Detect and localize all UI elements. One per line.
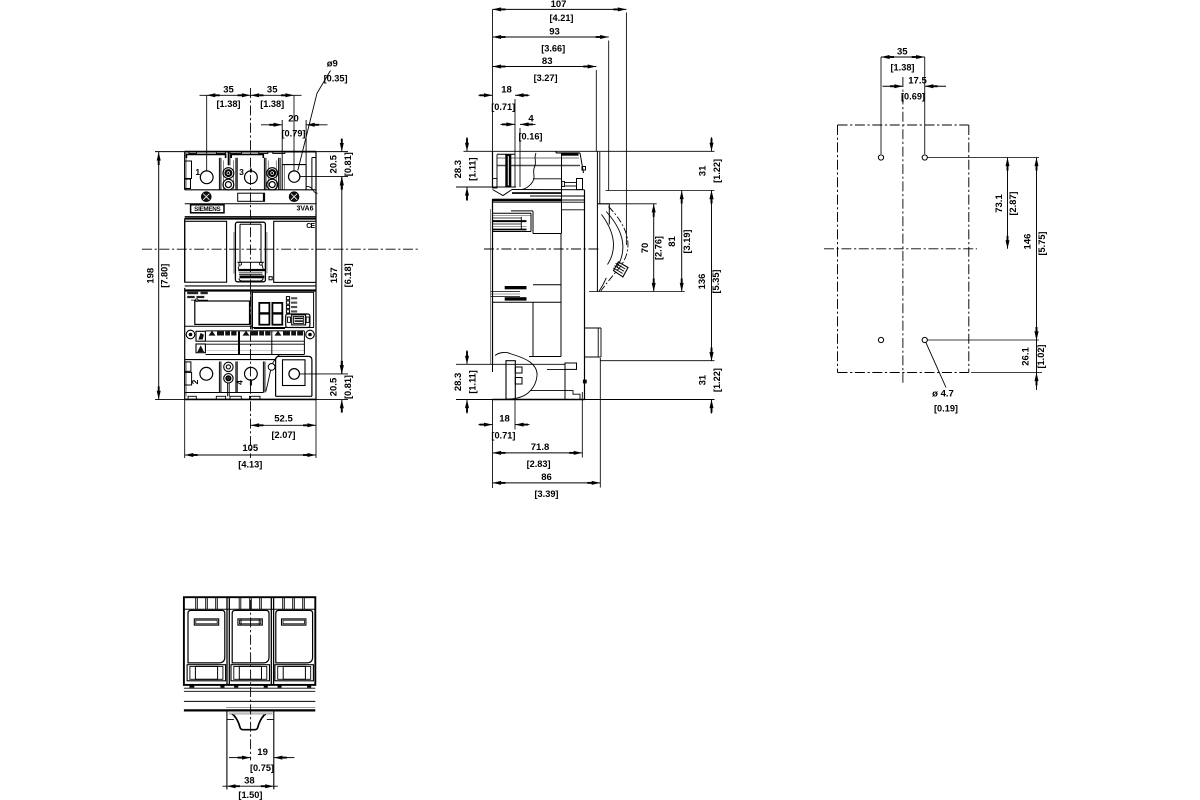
centerline: bottom view vertical (250, 600, 252, 760)
svg-text:35: 35 (897, 46, 908, 57)
dimension: 35 [1.38] hole pitch (881, 46, 925, 154)
side view: case outline (456, 151, 715, 399)
front view: divider block 1 with small screws (219, 158, 237, 190)
front view: small square right of toggle (269, 277, 272, 280)
svg-text:[1.22]: [1.22] (712, 159, 722, 183)
dimension: 31 [1.22] bottom right (711, 347, 713, 361)
front view: bottom right terminal block (276, 356, 348, 396)
svg-text:198: 198 (145, 268, 156, 284)
front view: mounting bar with two screws and label plate (185, 192, 316, 204)
front view: SIEMENS nameplate (191, 205, 224, 213)
side view: bottom front extension (492, 400, 494, 489)
svg-text:[1.11]: [1.11] (467, 157, 477, 181)
svg-text:4: 4 (528, 113, 534, 124)
dimension: 198 [7.80] overall height (145, 152, 169, 400)
side view: dark separation band (493, 199, 562, 202)
svg-text:18: 18 (499, 413, 510, 424)
front view: section divider line (185, 217, 316, 219)
side view: bottom terminal detail (456, 352, 587, 399)
dimension: 86 [3.39] (493, 358, 601, 499)
svg-text:[1.38]: [1.38] (216, 99, 240, 109)
svg-text:[1.38]: [1.38] (260, 99, 284, 109)
front view: terminal screw pole4 bottom (label 4) (234, 367, 257, 385)
bottom view: pole 1 face and slot (188, 610, 225, 663)
dimension: 4 [0.16] (501, 113, 543, 141)
front view: warning label band (196, 331, 304, 355)
bottom view: base plate lines (184, 688, 315, 710)
leader: diameter 4.7 [0.19] (926, 342, 958, 413)
svg-text:83: 83 (542, 56, 553, 67)
front view: toggle recess and handle (234, 222, 267, 282)
dimension: 105 [4.13] overall width (185, 399, 316, 469)
front view: top-left wall details (185, 153, 192, 190)
svg-text:81: 81 (667, 236, 678, 247)
side view: case interior lines (493, 196, 585, 357)
svg-text:1: 1 (195, 167, 200, 177)
side view: right extension lines (589, 191, 715, 361)
front view: divider block 2 with small screws (264, 158, 280, 190)
front view: mid section left panel (185, 221, 227, 282)
front view: bottom divider 2 and wire hook (263, 355, 279, 393)
svg-text:35: 35 (267, 84, 278, 95)
dimension: 71.8 [2.83] (493, 392, 583, 469)
svg-text:[0.16]: [0.16] (518, 131, 542, 141)
svg-text:20.5: 20.5 (329, 377, 340, 396)
dimension: 18 [0.71] top (479, 84, 530, 112)
front view: rotary switch squares (254, 303, 285, 329)
svg-text:157: 157 (329, 267, 340, 283)
front view: bottom feet tabs (188, 396, 260, 399)
centerline: front view vertical (pole 3-4) (250, 88, 252, 458)
front view: trip unit left window (195, 301, 250, 324)
svg-text:[2.83]: [2.83] (527, 459, 551, 469)
svg-text:31: 31 (698, 374, 709, 385)
front view: bottom bay floor line (185, 392, 264, 394)
bottom view: feet stubs (189, 686, 311, 688)
dimension: 83 [3.27] (493, 56, 597, 151)
front view: top edge tabs (189, 152, 285, 154)
dimension: 136 [5.35] (697, 191, 721, 361)
dimension: 93 [3.66] (493, 26, 609, 190)
svg-text:2: 2 (190, 379, 200, 384)
side view: handle travel arc (phantom) (601, 207, 628, 292)
svg-text:20.5: 20.5 (329, 154, 340, 173)
svg-text:[1.22]: [1.22] (712, 368, 722, 392)
front view: bays bottom line (185, 189, 316, 191)
dimension: 17.5 [0.69] (883, 76, 947, 102)
dimension: 26.1 [1.02] (1020, 327, 1046, 390)
dimension: 35 [1.38] pole pitch 1-3 (200, 84, 302, 170)
svg-text:[5.35]: [5.35] (711, 269, 721, 293)
front view: top terminal bay channels (186, 152, 263, 166)
dimension: 28.3 [1.11] top (466, 137, 468, 151)
drilling plan: mounting holes 4.7 (878, 155, 927, 343)
svg-text:SIEMENS: SIEMENS (194, 206, 220, 213)
svg-text:26.1: 26.1 (1020, 347, 1031, 366)
svg-text:[0.35]: [0.35] (324, 74, 348, 84)
svg-text:[2.07]: [2.07] (271, 430, 295, 440)
dimension: 146 [5.75] (1023, 158, 1048, 341)
side view: escutcheon and handle frame (597, 151, 609, 292)
front view: test connector (286, 314, 310, 328)
front view: mid section right panel (274, 221, 316, 282)
svg-text:[0.19]: [0.19] (934, 403, 958, 413)
svg-text:[4.21]: [4.21] (549, 13, 573, 23)
dimension: 20 [0.79] pocket width (261, 113, 328, 138)
leader: o9 [0.35] hole callout (298, 59, 348, 171)
svg-text:CE: CE (306, 223, 315, 230)
centerline: front view horizontal (142, 248, 420, 250)
svg-text:86: 86 (541, 472, 552, 483)
drilling plan: hole row extension lines (927, 158, 1042, 373)
svg-text:35: 35 (223, 84, 234, 95)
svg-text:70: 70 (640, 243, 651, 254)
front view: terminal screw pole2 (239, 167, 257, 184)
front view: bottom terminal zone top edge (185, 359, 276, 361)
bottom view: pole 2 face and slot (232, 610, 269, 663)
dimension: 107 [4.21] max depth (493, 0, 627, 245)
svg-text:146: 146 (1023, 234, 1034, 250)
front view: breaker outline (155, 152, 348, 400)
svg-text:[5.75]: [5.75] (1037, 231, 1047, 255)
svg-text:[2.87]: [2.87] (1008, 191, 1018, 215)
front view: indicator squares column (286, 297, 297, 313)
svg-text:17.5: 17.5 (908, 76, 927, 87)
svg-text:[0.71]: [0.71] (491, 431, 515, 441)
front view: pole3 terminal pocket with mounting hole (282, 120, 348, 193)
bottom view: body outline (184, 597, 315, 685)
dimension: 19 [0.75] (229, 747, 294, 773)
svg-text:[0.79]: [0.79] (281, 129, 305, 139)
svg-text:28.3: 28.3 (453, 160, 464, 179)
svg-text:3: 3 (239, 167, 244, 177)
svg-text:107: 107 (551, 0, 567, 10)
dimension: 73.1 [2.87] (994, 158, 1018, 249)
dimension: 52.5 [2.07] (251, 399, 317, 458)
side view: front cover stripe stack upper (493, 213, 531, 231)
drilling plan: panel outline (phantom) (838, 125, 969, 373)
svg-text:[3.19]: [3.19] (682, 229, 692, 253)
side view: top terminal detail (456, 99, 586, 234)
bottom view: top comb strip (184, 597, 315, 609)
svg-text:105: 105 (242, 443, 259, 454)
bottom view: pole 3 lug cavity (275, 665, 314, 681)
svg-text:[2.76]: [2.76] (654, 236, 664, 260)
svg-text:[1.02]: [1.02] (1036, 344, 1046, 368)
svg-text:ø 4.7: ø 4.7 (932, 388, 954, 399)
dimension: 18 [0.71] bottom (479, 400, 530, 441)
bottom view: pole 2 lug cavity (231, 665, 270, 681)
svg-text:[1.11]: [1.11] (467, 370, 477, 394)
front view: trip unit rating text rows (187, 292, 208, 302)
svg-text:52.5: 52.5 (274, 414, 293, 425)
dimension: 28.3 [1.11] bottom (466, 350, 468, 364)
svg-text:[0.71]: [0.71] (491, 102, 515, 112)
bottom view: pole dividers (227, 597, 274, 685)
dimension: 81 [3.19] (667, 191, 692, 292)
svg-text:[7.80]: [7.80] (160, 264, 170, 288)
svg-text:[4.13]: [4.13] (238, 460, 262, 470)
front view: mid/lower section divider (185, 286, 316, 291)
svg-text:73.1: 73.1 (994, 194, 1005, 213)
svg-text:[0.81]: [0.81] (343, 152, 353, 176)
svg-text:20: 20 (288, 113, 299, 124)
dimension: 20.5 [0.81] bottom (329, 361, 353, 413)
svg-text:18: 18 (501, 84, 512, 95)
svg-text:31: 31 (698, 165, 709, 176)
svg-text:ø9: ø9 (327, 59, 338, 70)
svg-text:[3.66]: [3.66] (541, 43, 565, 53)
centerline: plan slot vertical (902, 77, 904, 385)
centerline: plan horizontal (824, 248, 977, 250)
front view: trip unit right panel (252, 292, 313, 327)
svg-text:[0.81]: [0.81] (343, 375, 353, 399)
dimension: 31 [1.22] top right (711, 137, 713, 151)
svg-text:71.8: 71.8 (531, 442, 550, 453)
svg-text:[3.39]: [3.39] (534, 489, 558, 499)
bottom view: pole 3 face and slot (276, 610, 313, 663)
dimension: 35 [1.38] pole pitch 3-5 (260, 84, 284, 109)
svg-text:28.3: 28.3 (453, 373, 464, 392)
side view: DIN rail tab rear (585, 328, 602, 357)
front view: terminal screw pole2 bottom (label 2) (190, 367, 213, 384)
bottom view: pole 1 lug cavity (187, 665, 226, 681)
svg-text:[3.27]: [3.27] (534, 73, 558, 83)
svg-text:[6.18]: [6.18] (343, 263, 353, 287)
dimension: 157 [6.18] hole pitch vertical (329, 177, 353, 374)
side view: front cover stripe stack mid (491, 286, 527, 301)
svg-text:19: 19 (257, 747, 268, 758)
front view: bottom-left wall details (185, 362, 192, 396)
svg-text:38: 38 (244, 776, 255, 787)
svg-text:[1.50]: [1.50] (238, 790, 262, 800)
svg-text:136: 136 (697, 274, 708, 290)
front view: trip unit pole divider (251, 291, 253, 329)
bottom view: DIN rail clip tongue (227, 712, 274, 790)
svg-text:3VA6: 3VA6 (297, 205, 314, 212)
front view: terminal screw pole1 (195, 167, 213, 184)
dimension: 38 [1.50] (223, 776, 278, 800)
dimension: 70 [2.76] (640, 204, 664, 292)
front view: bottom divider block 1 (219, 362, 237, 397)
dimension: 20.5 [0.81] top (329, 139, 353, 190)
svg-text:[1.38]: [1.38] (890, 62, 914, 72)
front view: band corner screws (186, 330, 314, 339)
svg-text:[0.69]: [0.69] (901, 92, 925, 102)
centerline: side view horizontal (484, 248, 601, 250)
side view: handle (599, 212, 628, 292)
svg-text:93: 93 (549, 26, 560, 37)
svg-text:[0.75]: [0.75] (250, 763, 274, 773)
